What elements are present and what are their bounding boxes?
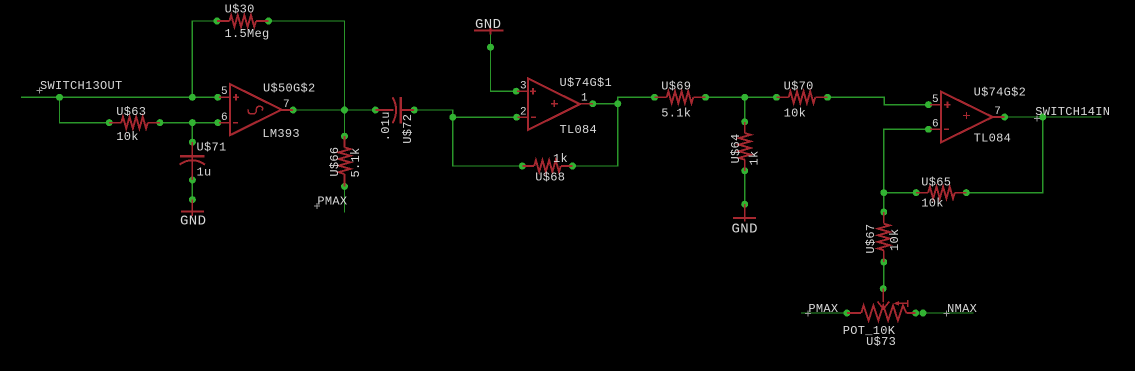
svg-text:U$50G$2: U$50G$2 <box>263 82 316 96</box>
potentiometer U$73 trimmer arrow mark <box>894 300 908 307</box>
junction at (923,313) <box>920 310 927 317</box>
wire SWITCH14IN output run <box>1005 116 1102 118</box>
wire U$30 right down to output node <box>269 21 345 110</box>
op-amp U$74G$2 plus sign <box>944 102 950 108</box>
svg-text:6: 6 <box>221 112 228 124</box>
junction at (344.5,136.2) <box>341 133 348 140</box>
junction at (217.8,122.6) <box>214 119 221 126</box>
junction at (744.7,121.9) <box>741 118 748 125</box>
svg-text:U$68: U$68 <box>535 171 565 185</box>
ground symbol above U$74G$1 (inverted) <box>474 28 503 35</box>
resistor U$67 10k (vertical) <box>878 212 890 262</box>
wire node down to U$67 <box>883 193 885 212</box>
svg-text:10k: 10k <box>784 107 807 121</box>
junction at (192.4,122.6) <box>189 119 196 126</box>
svg-text:10k: 10k <box>888 228 902 251</box>
op-amp U$74G$2 minus sign <box>944 128 949 130</box>
op-amp U$74G$1 minus sign <box>531 116 536 118</box>
svg-text:2: 2 <box>520 107 527 119</box>
junction at (516.1,91.2) <box>513 88 520 95</box>
junction at (744.7,97.3) <box>741 94 748 101</box>
svg-text:U$74G$1: U$74G$1 <box>560 76 613 90</box>
op-amp LM393 minus sign <box>233 122 238 124</box>
wire output node down to U$66 <box>344 110 346 136</box>
junction at (928.5,129.3) <box>925 126 932 133</box>
junction at (268.5,21) <box>265 18 272 25</box>
junction at (516.6,117.2) <box>513 114 520 121</box>
svg-text:U$30: U$30 <box>225 2 255 16</box>
svg-text:TL084: TL084 <box>974 132 1012 146</box>
op-amp LM393 pin leads <box>219 97 293 122</box>
svg-text:U$74G$2: U$74G$2 <box>974 86 1027 100</box>
svg-text:PMAX: PMAX <box>808 302 838 316</box>
net label SWITCH14IN origin cross <box>1034 116 1040 122</box>
svg-text:1u: 1u <box>197 165 212 179</box>
wire branch down from SWITCH13OUT junction <box>60 97 110 122</box>
junction at (109.2,122.6) <box>106 119 113 126</box>
svg-text:U$65: U$65 <box>921 176 951 190</box>
junction at (916.1,192.6) <box>913 189 920 196</box>
junction at (192.4,142.1) <box>189 139 196 146</box>
svg-text:1.5Meg: 1.5Meg <box>225 27 270 41</box>
wire U$67 bottom to pot wiper <box>883 262 885 289</box>
svg-text:5.1k: 5.1k <box>349 147 363 177</box>
net label SWITCH13OUT origin cross <box>37 87 43 93</box>
svg-text:U$67: U$67 <box>864 224 878 254</box>
junction at (414.2,110) <box>411 107 418 114</box>
resistor U$68 1k <box>522 160 572 172</box>
op-amp U$74G$2 TL084 triangle <box>941 92 993 143</box>
wire U$68 right to output vertical <box>573 97 655 166</box>
junction at (744.7,204.2) <box>741 201 748 208</box>
junction at (928.5,104.7) <box>925 101 932 108</box>
resistor U$70 10k <box>777 91 828 103</box>
resistor U$65 10k <box>916 187 966 199</box>
junction at (490.5,47.2) <box>487 44 494 51</box>
junction at (1004.6,117) <box>1001 114 1008 121</box>
op-amp U$74G$1 TL084 triangle <box>528 78 580 129</box>
junction at (522.3,166) <box>519 163 526 170</box>
junction at (744.7,170.8) <box>741 167 748 174</box>
capacitor U$72 .01u (polarized, horizontal) <box>375 97 414 123</box>
junction at (883.8,212) <box>880 209 887 216</box>
svg-text:7: 7 <box>994 106 1001 118</box>
junction at (966.3,192.6) <box>963 189 970 196</box>
op-amp LM393 plus sign <box>233 94 239 100</box>
svg-text:U$72: U$72 <box>401 114 415 144</box>
svg-text:.01u: .01u <box>379 111 393 141</box>
junction at (776.5,97.3) <box>773 94 780 101</box>
wire PMAX to pot left <box>801 312 847 314</box>
junction at (217.8,97.3) <box>214 94 221 101</box>
svg-text:GND: GND <box>475 17 501 33</box>
junction at (159.9,122.6) <box>156 119 163 126</box>
wire feedback down to U$68 <box>453 117 523 166</box>
svg-text:U$70: U$70 <box>784 80 814 94</box>
junction at (705.5,97.3) <box>702 94 709 101</box>
svg-text:SWITCH13OUT: SWITCH13OUT <box>40 79 123 93</box>
wire pin6 node down to cap U$71 <box>191 123 193 143</box>
junction at (592.8,103.7) <box>589 100 596 107</box>
wire U$63 right to pin6 <box>160 122 218 124</box>
svg-text:6: 6 <box>932 119 939 131</box>
svg-text:5: 5 <box>932 94 939 106</box>
wire top GND down to pin3 of U$74G$1 <box>491 33 517 91</box>
wire branch down to U$64 <box>744 97 746 122</box>
svg-text:U$71: U$71 <box>197 140 227 154</box>
junction at (293.1,110) <box>290 107 297 114</box>
wire pot right to NMAX <box>923 312 974 314</box>
junction at (375.4,110) <box>372 107 379 114</box>
svg-text:U$73: U$73 <box>866 335 896 349</box>
junction at (1042.8,117) <box>1039 114 1046 121</box>
net label NMAX origin cross <box>944 310 950 316</box>
ground symbol below U$64 <box>733 204 756 222</box>
wire U$64 bottom to GND <box>744 171 746 204</box>
op-amp LM393 hysteresis glyph <box>248 106 263 114</box>
potentiometer U$73 POT_10K body <box>847 306 916 321</box>
svg-text:1k: 1k <box>748 150 762 165</box>
svg-text:1k: 1k <box>553 152 568 166</box>
junction at (59.5,97.3) <box>56 94 63 101</box>
svg-text:5.1k: 5.1k <box>661 107 691 121</box>
svg-text:7: 7 <box>283 99 290 111</box>
svg-text:LM393: LM393 <box>262 127 300 141</box>
wire cap U$71 bottom to GND <box>191 180 193 200</box>
svg-text:10k: 10k <box>921 197 944 211</box>
wire U$66 bottom to PMAX label <box>344 186 346 212</box>
svg-text:PMAX: PMAX <box>317 194 347 208</box>
resistor U$64 1k (vertical) <box>739 122 751 171</box>
junction at (452.8,117.2) <box>449 114 456 121</box>
potentiometer U$73 wiper arrow <box>878 289 890 309</box>
wire pin1 output of U$74G$1 <box>593 103 618 105</box>
op-amp U$50G$2 LM393 triangle <box>230 84 282 135</box>
junction at (915.6,313) <box>912 310 919 317</box>
junction at (344.5,110) <box>341 107 348 114</box>
svg-text:1: 1 <box>581 93 588 105</box>
svg-text:5: 5 <box>221 86 228 98</box>
resistor U$66 5.1k (vertical) <box>339 136 351 186</box>
svg-text:U$69: U$69 <box>661 80 691 94</box>
junction at (654.5,97.3) <box>651 94 658 101</box>
wire net SWITCH13OUT top run to pin5 <box>21 96 218 98</box>
wire U$70 right jog to pin5 of U$74G$2 <box>828 97 929 104</box>
junction at (344.5,186.4) <box>341 183 348 190</box>
net label PMAX at pot origin cross <box>805 310 811 316</box>
svg-text:10k: 10k <box>116 130 139 144</box>
junction at (827.5,97.3) <box>824 94 831 101</box>
op-amp U$74G$1 origin cross <box>551 100 558 107</box>
op-amp U$74G$1 pin leads <box>517 91 593 117</box>
wire feedback left vertical to U$30 <box>192 21 217 97</box>
junction at (572.5,166) <box>569 163 576 170</box>
svg-text:U$64: U$64 <box>729 133 743 163</box>
wire cap U$72 to pin2 of U$74G$1 <box>414 110 516 117</box>
resistor U$63 10k <box>109 117 160 129</box>
op-amp U$74G$2 origin cross <box>963 112 970 119</box>
wire pin6 of U$74G$2 left and down <box>884 129 929 192</box>
junction at (217,21) <box>214 18 221 25</box>
junction at (192.4,97.3) <box>189 94 196 101</box>
svg-text:TL084: TL084 <box>560 123 598 137</box>
svg-text:GND: GND <box>732 221 758 237</box>
junction at (883.8,262) <box>880 259 887 266</box>
junction at (883.8,192.6) <box>880 189 887 196</box>
junction at (192.4,199.6) <box>189 196 196 203</box>
svg-text:NMAX: NMAX <box>947 302 977 316</box>
junction at (883.2,288.6) <box>880 285 887 292</box>
svg-text:3: 3 <box>520 81 527 93</box>
resistor U$69 5.1k <box>655 91 706 103</box>
ground symbol below U$71 <box>181 200 204 216</box>
svg-text:GND: GND <box>180 213 206 229</box>
svg-text:U$63: U$63 <box>116 105 146 119</box>
net label PMAX origin cross <box>314 203 320 209</box>
junction at (846.9,313) <box>843 310 850 317</box>
wire LM393 output run <box>293 109 375 111</box>
op-amp U$74G$2 pin leads <box>930 105 1005 130</box>
svg-text:U$66: U$66 <box>328 147 342 177</box>
junction at (617.8,103.7) <box>614 100 621 107</box>
junction at (192.4,180) <box>189 177 196 184</box>
op-amp U$74G$1 plus sign <box>530 88 536 94</box>
wire U$69 to U$70 run <box>706 96 777 98</box>
resistor U$30 1.5Meg <box>217 15 269 27</box>
svg-text:SWITCH14IN: SWITCH14IN <box>1035 105 1110 119</box>
wire U$65 right up to output net <box>966 117 1043 193</box>
wire node to U$65 left <box>884 192 916 194</box>
capacitor U$71 1u (polarized, vertical) <box>180 142 205 180</box>
